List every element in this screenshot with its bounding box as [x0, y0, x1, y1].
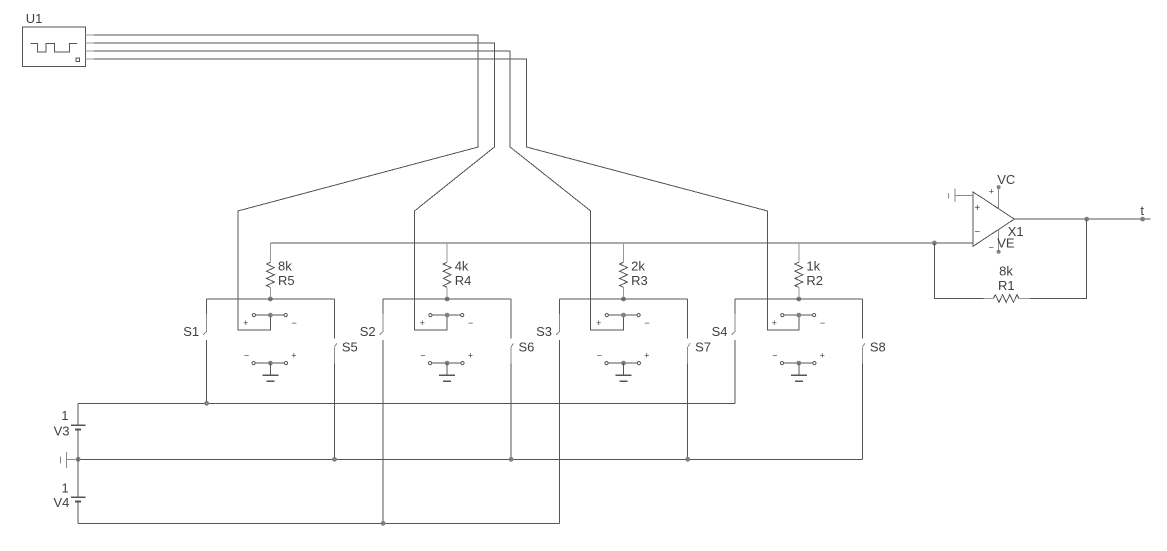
- wire summing bus to op-amp inverting input: [270, 242, 934, 244]
- svg-text:R2: R2: [806, 273, 823, 288]
- svg-text:+: +: [596, 318, 601, 328]
- svg-text:+: +: [291, 351, 296, 361]
- svg-text:−: −: [820, 318, 825, 328]
- switch S6 control terminals bar: [429, 361, 465, 366]
- wire net D2 (U1 pin 3 to S3 control +): [94, 51, 624, 330]
- svg-text:S4: S4: [712, 324, 728, 339]
- switch S2: [380, 299, 383, 523]
- svg-text:2k: 2k: [631, 258, 645, 273]
- switch S7: [688, 299, 690, 459]
- svg-text:+: +: [974, 203, 980, 214]
- wire rail V3-/V4+ to S5/S6/S7/S8: [78, 458, 862, 460]
- switch S4: [732, 299, 735, 403]
- svg-text:−: −: [291, 318, 296, 328]
- switch S3: [556, 299, 559, 523]
- svg-text:V4: V4: [54, 495, 70, 510]
- svg-text:V3: V3: [54, 424, 70, 439]
- svg-text:1: 1: [61, 408, 68, 423]
- svg-text:1k: 1k: [806, 258, 820, 273]
- switch S6: [511, 299, 513, 459]
- switch S1 control terminals bar: [252, 313, 287, 318]
- svg-text:−: −: [772, 351, 777, 361]
- junction node V3-/V4+ rail: [76, 457, 81, 462]
- svg-text:−: −: [244, 351, 249, 361]
- svg-text:S6: S6: [519, 339, 535, 354]
- resistor R2 (1k): [795, 243, 803, 299]
- svg-text:S1: S1: [183, 324, 199, 339]
- terminal node t: [1140, 217, 1145, 222]
- junction node S1 on V3+ rail: [204, 401, 209, 406]
- svg-text:−: −: [597, 351, 602, 361]
- wire net D3 (U1 pin 4 to S4 control +): [94, 59, 799, 330]
- reference-cell mark at V3/V4 node: [61, 452, 77, 468]
- svg-text:−: −: [644, 318, 649, 328]
- X1 VC power pin: [997, 185, 1001, 209]
- junction node R5 bottom / switch cell top: [268, 297, 273, 302]
- svg-text:S8: S8: [870, 339, 886, 354]
- svg-text:+: +: [772, 318, 777, 328]
- junction node S6 on mid rail: [509, 457, 514, 462]
- svg-text:+: +: [420, 318, 425, 328]
- switch S5: [335, 299, 337, 459]
- junction node R4 bottom / switch cell top: [445, 297, 450, 302]
- svg-text:+: +: [468, 351, 473, 361]
- wire net D0 (U1 pin 1 to S1 control +): [94, 35, 478, 330]
- switch S5 control terminals bar: [252, 361, 288, 366]
- svg-text:+: +: [644, 351, 649, 361]
- svg-text:+: +: [820, 351, 825, 361]
- junction node S2 on V4- rail: [381, 521, 386, 526]
- svg-text:S2: S2: [360, 324, 376, 339]
- svg-text:1: 1: [62, 481, 69, 496]
- svg-text:t: t: [1140, 203, 1144, 218]
- ground (switch S5 control reference): [262, 363, 278, 381]
- wire feedback from output: [1030, 219, 1087, 298]
- digital pulse source U1: [22, 27, 85, 66]
- wire switch cell top (S3/S7): [560, 298, 688, 300]
- battery V3: [71, 403, 86, 459]
- switch S8 control terminals bar: [780, 361, 816, 366]
- svg-text:−: −: [989, 242, 994, 252]
- svg-text:R1: R1: [998, 278, 1015, 293]
- U1 pin 1 stub: [85, 34, 94, 36]
- svg-text:VE: VE: [997, 236, 1015, 251]
- ground (switch S6 control reference): [439, 363, 455, 381]
- junction node inverting input: [932, 241, 937, 246]
- wire net D1 (U1 pin 2 to S2 control +): [94, 43, 494, 330]
- switch S8: [863, 299, 865, 459]
- svg-text:R5: R5: [278, 273, 295, 288]
- wire switch cell top (S4/S8): [735, 298, 863, 300]
- svg-text:−: −: [468, 318, 473, 328]
- wire op-amp output: [1014, 218, 1150, 220]
- resistor R5 (8k): [267, 243, 275, 299]
- wire inverting input to bus: [934, 242, 973, 244]
- junction node R2 bottom / switch cell top: [796, 297, 801, 302]
- ground (switch S8 control reference): [791, 363, 807, 381]
- svg-text:S7: S7: [695, 339, 711, 354]
- reference-cell mark at X1 + input: [949, 189, 973, 203]
- U1 pin 3 stub: [85, 50, 94, 52]
- svg-text:8k: 8k: [278, 258, 292, 273]
- svg-text:−: −: [420, 351, 425, 361]
- battery V4: [71, 459, 86, 523]
- svg-text:4k: 4k: [455, 258, 469, 273]
- resistor R3 (2k): [620, 243, 628, 299]
- svg-text:+: +: [989, 186, 994, 196]
- wire switch cell top (S2/S6): [383, 298, 511, 300]
- svg-text:U1: U1: [26, 11, 43, 26]
- svg-text:R3: R3: [631, 273, 648, 288]
- svg-text:S5: S5: [342, 339, 358, 354]
- switch S1: [203, 299, 206, 403]
- svg-text:8k: 8k: [999, 263, 1013, 278]
- junction node output feedback tap: [1084, 217, 1089, 222]
- switch S2 control terminals bar: [429, 313, 464, 318]
- switch S4 control terminals bar: [781, 313, 816, 318]
- junction node S7 on mid rail: [685, 457, 690, 462]
- svg-text:R4: R4: [455, 273, 472, 288]
- resistor R1 (8k): [983, 295, 1030, 303]
- junction node R3 bottom / switch cell top: [621, 297, 626, 302]
- U1 pin 2 stub: [85, 42, 94, 44]
- svg-text:VC: VC: [997, 172, 1015, 187]
- ground (switch S7 control reference): [616, 363, 632, 381]
- junction node S5 on mid rail: [332, 457, 337, 462]
- wire switch cell top (S1/S5): [207, 298, 335, 300]
- svg-text:S3: S3: [536, 324, 552, 339]
- switch S7 control terminals bar: [605, 361, 641, 366]
- wire feedback to inverting input: [934, 243, 983, 299]
- svg-text:−: −: [974, 227, 980, 238]
- svg-text:+: +: [243, 318, 248, 328]
- switch S3 control terminals bar: [605, 313, 640, 318]
- U1 pin 4 stub: [85, 58, 94, 60]
- X1 VE power pin: [997, 229, 1001, 253]
- wire rail V3+ to S1/S4: [78, 402, 735, 404]
- wire rail V4- to S2/S3: [78, 522, 559, 524]
- op-amp X1: [973, 192, 1014, 246]
- resistor R4 (4k): [443, 243, 451, 299]
